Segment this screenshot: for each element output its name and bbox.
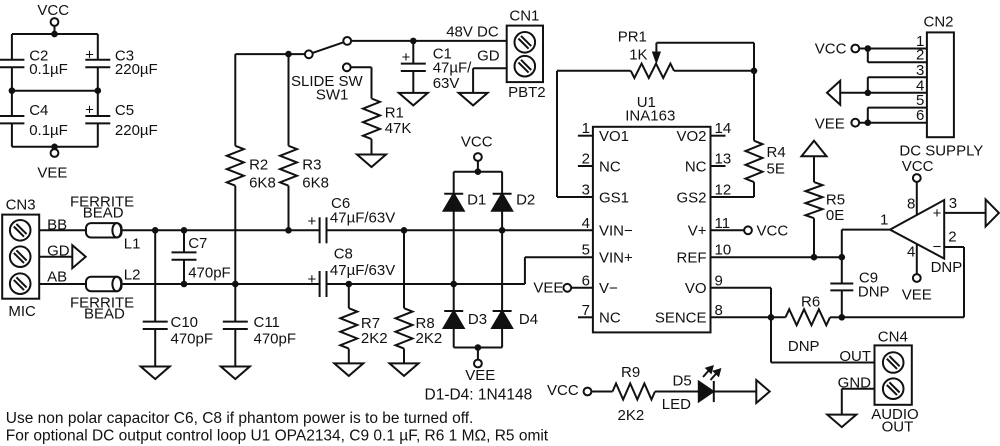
pin 2 wire: [944, 229, 964, 248]
wire: [97, 67, 99, 91]
svg-text:VCC: VCC: [547, 382, 579, 399]
svg-text:D3: D3: [468, 311, 487, 328]
capacitor C3: [85, 46, 158, 78]
wire: [453, 211, 455, 284]
node VCC (CN2): [815, 41, 927, 58]
label AB: [47, 268, 67, 285]
junction: [401, 227, 408, 234]
pin 10 label: [677, 242, 732, 267]
svg-text:C10: C10: [171, 314, 199, 331]
potentiometer PR1 1K: [618, 29, 754, 79]
wire BB: [39, 229, 86, 231]
svg-text:R2: R2: [249, 157, 268, 174]
svg-text:7: 7: [582, 302, 590, 319]
capacitor C10 470pF: [143, 230, 213, 366]
svg-text:−: −: [933, 238, 942, 255]
svg-text:VCC: VCC: [757, 223, 789, 240]
pin 6 number: [916, 107, 924, 124]
svg-text:C7: C7: [188, 235, 207, 252]
svg-text:V−: V−: [599, 280, 618, 297]
svg-text:D1-D4: 1N4148: D1-D4: 1N4148: [425, 387, 533, 404]
node VCC at V+ pin: [711, 223, 789, 240]
svg-text:REF: REF: [677, 250, 707, 267]
resistor R3 6K8: [280, 146, 329, 192]
wire: [235, 53, 305, 55]
LED D5: [662, 367, 720, 414]
resistor R2 6K8: [227, 146, 276, 192]
pin 1 output wire: [842, 212, 890, 230]
svg-text:C8: C8: [334, 245, 353, 262]
svg-text:8: 8: [907, 196, 915, 213]
junction: [768, 314, 775, 321]
wire: [11, 91, 13, 116]
wire: [11, 123, 13, 146]
ground: [334, 363, 363, 376]
capacitor C7 470pF: [172, 230, 231, 284]
port (gnd) CN2: [827, 81, 840, 105]
junction: [181, 227, 188, 234]
wire: [234, 186, 236, 284]
pin 8 VCC: [902, 158, 934, 215]
capacitor C8 47uF/63V: [308, 245, 396, 297]
svg-text:DC SUPPLY: DC SUPPLY: [899, 143, 983, 160]
svg-text:VO1: VO1: [599, 128, 629, 145]
wire left rail upper: [11, 34, 13, 60]
port (up) above R5: [802, 141, 827, 157]
wire GD: [39, 256, 72, 258]
wire clamp bottom rail: [454, 347, 502, 349]
svg-text:0.1µF: 0.1µF: [29, 122, 68, 139]
diode D3 1N4148: [444, 311, 487, 328]
svg-text:1: 1: [880, 212, 888, 229]
wire SENCE: [711, 316, 786, 318]
svg-text:6: 6: [582, 272, 590, 289]
label GD: [477, 47, 500, 64]
svg-text:GS1: GS1: [599, 189, 629, 206]
wire GS1: [557, 196, 593, 198]
wire line2 right: [327, 257, 593, 284]
pin 13 stub: [711, 165, 726, 167]
junction: [475, 344, 482, 351]
junction: [51, 144, 58, 151]
diode D2 1N4148: [492, 192, 535, 211]
svg-text:BEAD: BEAD: [84, 306, 125, 323]
svg-text:3: 3: [582, 182, 590, 199]
svg-text:VCC: VCC: [815, 41, 847, 58]
wire GS2: [711, 182, 755, 197]
svg-text:+: +: [402, 49, 411, 66]
svg-text:L2: L2: [124, 267, 141, 284]
wire VO to OUT: [711, 288, 875, 363]
wire feedback: [842, 247, 964, 317]
svg-text:PR1: PR1: [618, 29, 647, 46]
wire 48V line: [351, 24, 507, 41]
ground: [141, 367, 170, 380]
svg-text:NC: NC: [599, 310, 621, 327]
node VEE at V- pin: [533, 280, 593, 297]
op-amp U2 DNP body: [890, 200, 962, 276]
svg-text:SW1: SW1: [316, 87, 349, 104]
label GND: [838, 375, 872, 392]
wire top rail: [12, 33, 98, 35]
junction: [865, 90, 872, 97]
wire clamp top rail: [454, 171, 502, 173]
junction: [499, 227, 506, 234]
svg-text:VCC: VCC: [902, 158, 934, 175]
svg-text:470pF: 470pF: [254, 331, 297, 348]
svg-text:C4: C4: [29, 102, 48, 119]
resistor R1 47K: [363, 99, 411, 140]
pin 4 label: [582, 215, 633, 240]
wire line2: [122, 283, 320, 285]
connector CN4 AUDIO OUT: [871, 329, 919, 436]
wire: [453, 284, 455, 311]
wire REF: [711, 256, 842, 258]
node VEE (CN2): [815, 116, 927, 133]
svg-text:Use non polar capacitor C6, C8: Use non polar capacitor C6, C8 if phanto…: [6, 410, 474, 427]
wire: [412, 71, 414, 93]
svg-text:AB: AB: [47, 268, 67, 285]
svg-text:BEAD: BEAD: [83, 205, 124, 222]
svg-text:470pF: 470pF: [188, 265, 231, 282]
svg-text:5: 5: [582, 242, 590, 259]
label OUT: [839, 348, 871, 365]
diode D1 1N4148: [444, 192, 487, 211]
wire line1 right: [327, 229, 593, 231]
wire mid rail: [12, 90, 98, 92]
svg-text:6K8: 6K8: [249, 175, 276, 192]
svg-text:VO2: VO2: [676, 128, 706, 145]
port GD: [72, 245, 85, 268]
op-amp U1 INA163 body: [593, 94, 711, 332]
wire: [11, 67, 13, 91]
svg-text:+: +: [85, 46, 94, 63]
svg-text:VEE: VEE: [37, 165, 67, 182]
pin 7 stub: [578, 316, 593, 318]
svg-text:3: 3: [949, 195, 957, 212]
wire: [501, 211, 503, 311]
wire: [234, 54, 236, 146]
svg-text:+: +: [933, 205, 942, 222]
wire pin2: [868, 49, 927, 63]
svg-text:LED: LED: [662, 396, 691, 413]
pin 3 label: [582, 182, 629, 207]
svg-text:NC: NC: [599, 158, 621, 175]
wire: [830, 316, 842, 318]
pin 5 label: [582, 242, 633, 267]
junction: [811, 254, 818, 261]
svg-text:MIC: MIC: [8, 303, 36, 320]
ferrite bead L1: [70, 194, 140, 253]
svg-text:C11: C11: [254, 314, 280, 331]
junction: [152, 227, 159, 234]
wire pin5: [868, 108, 927, 123]
svg-text:6: 6: [916, 107, 924, 124]
resistor R4 5E: [746, 141, 786, 182]
wire GND: [842, 389, 875, 415]
capacitor C6 47uF/63V: [308, 195, 396, 243]
svg-text:GS2: GS2: [676, 189, 706, 206]
pin 3 output port: [944, 195, 999, 226]
pin 8 label: [655, 302, 723, 327]
svg-text:8: 8: [715, 302, 723, 319]
ground: [221, 367, 250, 380]
junction: [839, 314, 846, 321]
svg-text:PBT2: PBT2: [508, 84, 546, 101]
wire right rail upper: [97, 34, 99, 60]
svg-text:220µF: 220µF: [115, 122, 158, 139]
junction: [751, 68, 758, 75]
pin 4 number: [916, 77, 924, 94]
resistor R7 2K2: [340, 284, 387, 363]
pin 14 stub: [711, 135, 726, 137]
svg-text:63V: 63V: [433, 75, 460, 92]
svg-text:+: +: [308, 213, 317, 230]
svg-text:4: 4: [582, 215, 590, 232]
junction: [285, 227, 292, 234]
svg-text:1: 1: [582, 120, 590, 137]
wire: [753, 71, 755, 141]
wire: [501, 328, 503, 348]
svg-text:220µF: 220µF: [115, 61, 158, 78]
svg-text:VO: VO: [685, 280, 707, 297]
ground: [357, 155, 386, 168]
pin 14 label: [676, 120, 731, 145]
wire bottom rail: [12, 146, 98, 148]
wire AB: [39, 283, 86, 285]
capacitor C2: [0, 48, 68, 79]
svg-text:R9: R9: [621, 364, 640, 381]
connector CN3 MIC: [2, 197, 39, 321]
wire: [288, 54, 290, 146]
diode D4 1N4148: [492, 311, 538, 328]
label GD: [47, 243, 70, 260]
node VCC (top-left supply): [37, 2, 69, 34]
wire: [97, 91, 99, 116]
svg-text:47µF/63V: 47µF/63V: [330, 262, 395, 279]
wire pin3: [868, 77, 927, 93]
svg-text:C5: C5: [115, 102, 134, 119]
svg-text:47µF/: 47µF/: [433, 60, 472, 77]
svg-text:47K: 47K: [385, 120, 412, 137]
svg-text:2: 2: [948, 229, 956, 246]
svg-text:1K: 1K: [629, 47, 647, 64]
svg-text:10: 10: [715, 242, 732, 259]
wire: [674, 70, 754, 72]
svg-text:For optional DC output control: For optional DC output control loop U1 O…: [6, 428, 549, 445]
capacitor C4: [0, 102, 68, 139]
svg-text:2K2: 2K2: [361, 330, 388, 347]
svg-text:VEE: VEE: [902, 287, 932, 304]
svg-text:+: +: [85, 102, 94, 119]
svg-text:DNP: DNP: [858, 284, 890, 301]
svg-text:4: 4: [907, 244, 915, 261]
svg-text:DNP: DNP: [931, 259, 963, 276]
svg-text:VEE: VEE: [533, 280, 563, 297]
svg-text:D1: D1: [467, 192, 486, 209]
pin 11 label: [688, 215, 730, 240]
junction: [475, 168, 482, 175]
svg-text:D4: D4: [519, 311, 538, 328]
svg-text:D2: D2: [516, 192, 535, 209]
ground: [827, 415, 856, 428]
connector CN2 DC SUPPLY: [899, 14, 983, 160]
wire: [501, 172, 503, 194]
svg-text:DNP: DNP: [788, 338, 820, 355]
svg-text:OUT: OUT: [882, 419, 914, 436]
wire: [288, 186, 290, 231]
svg-text:R1: R1: [385, 105, 404, 122]
svg-text:470pF: 470pF: [171, 331, 214, 348]
svg-text:2: 2: [582, 151, 590, 168]
junction: [839, 254, 846, 261]
wire: [813, 218, 815, 257]
svg-text:R5: R5: [826, 192, 845, 209]
svg-text:12: 12: [715, 182, 732, 199]
connector CN1 PBT2: [507, 8, 546, 101]
capacitor C1 47uF/63V: [401, 41, 472, 92]
wire: [97, 123, 99, 146]
capacitor C11 470pF: [223, 284, 296, 367]
pin 13 label: [685, 151, 731, 176]
svg-text:13: 13: [715, 151, 732, 168]
svg-text:9: 9: [715, 272, 723, 289]
svg-text:3: 3: [916, 62, 924, 79]
junction: [865, 119, 872, 126]
resistor R9 2K2: [613, 364, 656, 424]
svg-text:GD: GD: [477, 47, 500, 64]
pin 5 number: [916, 92, 924, 109]
svg-text:2K2: 2K2: [416, 330, 443, 347]
pin 4 VEE: [902, 244, 932, 304]
wire line1: [122, 229, 320, 231]
svg-text:VEE: VEE: [815, 116, 845, 133]
pin 2 label: [582, 151, 621, 176]
wire: [351, 67, 372, 98]
junction: [285, 51, 292, 58]
wire: [371, 139, 373, 154]
junction: [865, 45, 872, 52]
capacitor C5: [85, 102, 158, 139]
switch SW1 slide switch: [291, 37, 364, 104]
pin 12 label: [676, 182, 731, 207]
svg-text:14: 14: [715, 120, 732, 137]
note line 1: [6, 410, 474, 427]
junction: [410, 38, 417, 45]
svg-text:CN3: CN3: [6, 197, 36, 214]
node VCC (LED): [547, 382, 613, 399]
svg-text:VEE: VEE: [465, 367, 495, 384]
svg-text:VIN−: VIN−: [599, 223, 633, 240]
svg-text:V+: V+: [688, 223, 707, 240]
junction: [450, 281, 457, 288]
svg-text:CN4: CN4: [878, 329, 908, 346]
wire GD: [473, 68, 507, 93]
svg-text:VCC: VCC: [37, 2, 69, 19]
pin 2 number: [916, 47, 924, 64]
wire: [453, 172, 455, 194]
svg-text:11: 11: [715, 215, 731, 232]
svg-text:CN2: CN2: [924, 14, 954, 31]
ground: [459, 93, 488, 106]
pin 2 stub: [578, 165, 593, 167]
svg-text:L1: L1: [124, 236, 141, 253]
pin 3 number: [916, 62, 924, 79]
svg-text:INA163: INA163: [625, 108, 675, 125]
junction: [95, 87, 102, 94]
svg-text:VIN+: VIN+: [599, 250, 633, 267]
svg-text:2K2: 2K2: [618, 407, 645, 424]
pin 1 label: [582, 120, 629, 145]
svg-text:VCC: VCC: [461, 134, 493, 151]
resistor R6 DNP: [786, 294, 831, 356]
pin 1 stub: [578, 135, 593, 137]
wire pin4: [840, 92, 927, 94]
svg-text:0.1µF: 0.1µF: [29, 61, 68, 78]
node VEE (top-left supply): [37, 147, 67, 182]
capacitor C9 DNP: [830, 230, 889, 318]
svg-text:0E: 0E: [826, 207, 844, 224]
svg-text:NC: NC: [685, 158, 707, 175]
junction: [181, 281, 188, 288]
wire: [556, 71, 558, 197]
wire: [557, 70, 631, 72]
wire: [714, 391, 757, 393]
ground: [390, 363, 419, 376]
junction: [9, 87, 16, 94]
svg-text:OUT: OUT: [839, 348, 871, 365]
junction: [346, 281, 353, 288]
svg-text:CN1: CN1: [509, 8, 539, 25]
ground: [399, 93, 428, 106]
resistor R8 2K2: [396, 230, 443, 363]
pin 1 number: [916, 33, 924, 50]
node VEE (diode clamp): [465, 348, 495, 385]
node VCC (diode clamp): [461, 134, 493, 172]
svg-text:D5: D5: [673, 373, 692, 390]
wire: [453, 328, 455, 348]
port (out) LED: [756, 380, 769, 403]
resistor R5 0E: [806, 156, 846, 224]
svg-text:47µF/63V: 47µF/63V: [330, 210, 395, 227]
svg-text:48V DC: 48V DC: [446, 24, 499, 41]
wire: [655, 391, 699, 393]
svg-text:R6: R6: [801, 294, 820, 311]
pin 6 label: [582, 272, 618, 297]
svg-text:+: +: [308, 271, 317, 288]
label D1-D4: 1N4148: [425, 387, 533, 404]
junction: [232, 281, 239, 288]
pin 7 label: [582, 302, 621, 327]
svg-text:R4: R4: [767, 144, 786, 161]
svg-text:5E: 5E: [767, 161, 785, 178]
svg-text:SENCE: SENCE: [655, 310, 707, 327]
svg-text:6K8: 6K8: [302, 175, 329, 192]
svg-text:R3: R3: [302, 157, 321, 174]
label BB: [47, 216, 67, 233]
note line 2: [6, 428, 549, 445]
junction: [51, 31, 58, 38]
ferrite bead L2: [70, 267, 140, 323]
pin 9 label: [685, 272, 723, 297]
